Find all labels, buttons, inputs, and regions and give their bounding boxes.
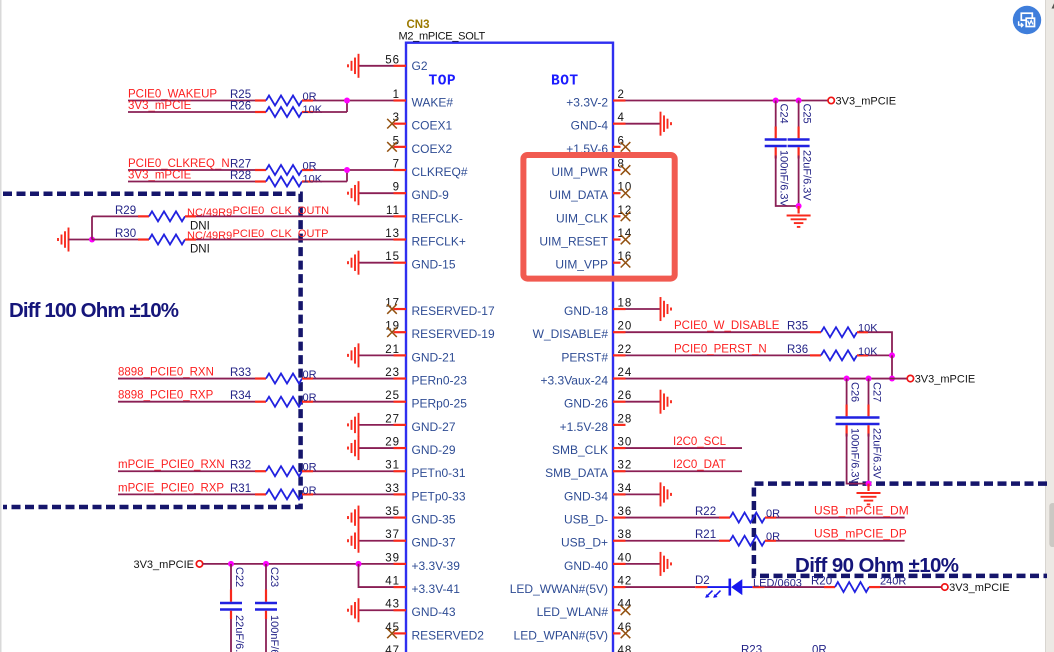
wire 3V3_mPCIE to R26 bbox=[128, 111, 255, 113]
pin 1 WAKE# bbox=[393, 89, 454, 110]
pin 21 GND-21 bbox=[385, 344, 456, 365]
power port 3V3_mPCIE (pin 2) bbox=[828, 97, 834, 103]
svg-text:R21: R21 bbox=[695, 529, 716, 541]
pin 18 GND-18 bbox=[564, 298, 632, 319]
svg-text:GND-15: GND-15 bbox=[412, 258, 456, 272]
wire R33 to pin bbox=[313, 378, 394, 380]
wire R27 to pin bbox=[313, 169, 394, 171]
pin 14 UIM_RESET bbox=[539, 228, 632, 249]
ground at pin 37 bbox=[348, 529, 359, 553]
svg-text:GND-26: GND-26 bbox=[564, 397, 608, 411]
pin 42 LED_WWAN#(5V) bbox=[510, 576, 633, 597]
pin 32 SMB_DATA bbox=[545, 460, 632, 481]
ground at pin 15 bbox=[348, 251, 359, 275]
pin 10 UIM_DATA bbox=[549, 182, 632, 203]
ground at pin 21 bbox=[348, 343, 359, 367]
resistor R21 0R bbox=[719, 536, 776, 546]
wire pin to R36 bbox=[626, 354, 811, 356]
pin 24 +3.3Vaux-24 bbox=[541, 367, 633, 388]
wire pin 40 to ground bbox=[626, 563, 661, 565]
svg-text:R25: R25 bbox=[230, 89, 251, 101]
junction bbox=[344, 167, 350, 173]
wire pin to R35 bbox=[626, 331, 811, 333]
ground at pin 27 bbox=[348, 413, 359, 437]
highlight box UIM pins bbox=[523, 155, 674, 279]
svg-text:GND-34: GND-34 bbox=[564, 489, 608, 503]
svg-text:Diff 90 Ohm ±10%: Diff 90 Ohm ±10% bbox=[795, 554, 959, 577]
svg-text:22uF/6.3: 22uF/6.3 bbox=[233, 615, 245, 652]
svg-text:+3.3V-2: +3.3V-2 bbox=[566, 96, 608, 110]
pin 5 COEX2 bbox=[393, 135, 453, 156]
svg-text:43: 43 bbox=[385, 599, 400, 611]
pin 45 RESERVED2 bbox=[385, 622, 484, 643]
connector CN3 body bbox=[406, 43, 613, 652]
ground at pin 9 bbox=[348, 181, 359, 205]
pin 56 G2 bbox=[385, 54, 428, 73]
svg-text:32: 32 bbox=[618, 460, 633, 472]
svg-text:3V3_mPCIE: 3V3_mPCIE bbox=[836, 95, 897, 107]
wire R30 to pin 13 bbox=[196, 239, 394, 241]
resistor R26 10K bbox=[255, 107, 313, 117]
no-connect X pin 12 bbox=[621, 212, 631, 222]
wire 8898_PCIE0_RXN to R33 bbox=[118, 378, 255, 380]
svg-text:22uF/6.3V: 22uF/6.3V bbox=[871, 428, 883, 479]
svg-text:UIM_RESET: UIM_RESET bbox=[539, 235, 608, 249]
resistor R35 10K bbox=[810, 327, 868, 337]
wire ground to R30 bbox=[92, 239, 138, 241]
page edge strip right bbox=[1046, 0, 1054, 652]
ground below C26/C27 bbox=[857, 493, 881, 504]
pin 31 PETn0-31 bbox=[385, 460, 466, 481]
pin 3 COEX1 bbox=[393, 112, 453, 133]
no-connect X pin 44 bbox=[621, 605, 631, 615]
resistor R32 0R bbox=[255, 466, 313, 476]
svg-text:PETp0-33: PETp0-33 bbox=[412, 489, 466, 503]
svg-text:GND-18: GND-18 bbox=[564, 304, 608, 318]
junction bbox=[228, 561, 234, 567]
svg-text:GND-40: GND-40 bbox=[564, 559, 608, 573]
wire pin 38 to R21 bbox=[626, 540, 720, 542]
svg-text:13: 13 bbox=[385, 228, 400, 240]
svg-text:240R: 240R bbox=[880, 576, 906, 588]
pin 11 REFCLK- bbox=[386, 205, 463, 226]
svg-text:40: 40 bbox=[618, 552, 633, 564]
svg-text:8898_PCIE0_RXP: 8898_PCIE0_RXP bbox=[118, 390, 214, 402]
pin 8 UIM_PWR bbox=[551, 159, 625, 180]
resistor R28 10K bbox=[255, 177, 313, 187]
wire pin 36 to R22 bbox=[626, 517, 720, 519]
svg-text:39: 39 bbox=[385, 552, 400, 564]
svg-text:11: 11 bbox=[386, 205, 400, 217]
pin 23 PERn0-23 bbox=[385, 367, 467, 388]
svg-text:PERp0-25: PERp0-25 bbox=[412, 397, 468, 411]
no-connect X pin 16 bbox=[621, 258, 631, 268]
svg-text:G2: G2 bbox=[412, 59, 428, 73]
wire C23 bottom bbox=[265, 619, 267, 652]
svg-text:+3.3V-41: +3.3V-41 bbox=[412, 582, 461, 596]
svg-text:BOT: BOT bbox=[551, 74, 579, 90]
svg-text:3V3_mPCIE: 3V3_mPCIE bbox=[133, 559, 194, 571]
svg-text:UIM_PWR: UIM_PWR bbox=[551, 165, 608, 179]
svg-text:PERST#: PERST# bbox=[561, 350, 608, 364]
wire PCIE0_WAKEUP to R25 bbox=[128, 100, 255, 102]
ground at pin 34 bbox=[661, 482, 672, 506]
svg-text:PCIE0_CLKREQ_N: PCIE0_CLKREQ_N bbox=[128, 158, 230, 170]
svg-text:3V3_mPCIE: 3V3_mPCIE bbox=[128, 100, 192, 112]
wire PCIE0_CLKREQ_N to R27 bbox=[128, 169, 255, 171]
floating action icon bbox=[1013, 6, 1041, 34]
svg-text:2: 2 bbox=[618, 89, 625, 101]
wire R36 to node bbox=[868, 354, 892, 356]
pin 34 GND-34 bbox=[564, 483, 632, 504]
pin 36 USB_D- bbox=[564, 506, 632, 527]
resistor R27 0R bbox=[255, 165, 313, 175]
no-connect X pin 46 bbox=[621, 629, 631, 639]
resistor R36 10K bbox=[810, 350, 868, 360]
svg-text:56: 56 bbox=[385, 54, 400, 66]
svg-text:UIM_DATA: UIM_DATA bbox=[549, 188, 608, 202]
ground at pin 43 bbox=[348, 598, 359, 622]
svg-text:R20: R20 bbox=[811, 576, 832, 588]
wire C23 top bbox=[265, 564, 267, 590]
capacitor C25 bbox=[788, 127, 810, 159]
svg-text:8898_PCIE0_RXN: 8898_PCIE0_RXN bbox=[118, 367, 214, 379]
capacitor C26 bbox=[836, 405, 858, 437]
wire 8898_PCIE0_RXP to R34 bbox=[118, 401, 255, 403]
svg-text:C24: C24 bbox=[778, 104, 790, 124]
no-connect X pin 45 bbox=[387, 629, 397, 639]
power port 3V3_mPCIE (pin 24) bbox=[907, 375, 913, 381]
pin 16 UIM_VPP bbox=[555, 251, 632, 272]
svg-text:GND-43: GND-43 bbox=[412, 605, 456, 619]
pin 30 SMB_CLK bbox=[552, 437, 632, 458]
wire C25 top bbox=[798, 101, 800, 131]
svg-text:26: 26 bbox=[618, 390, 633, 402]
wire node up to R29 bbox=[91, 216, 93, 239]
svg-text:REFCLK+: REFCLK+ bbox=[412, 235, 466, 249]
svg-text:15: 15 bbox=[385, 251, 400, 263]
wire pin 32 I2C0_DAT bbox=[626, 470, 743, 472]
LED D2 bbox=[695, 579, 764, 598]
pin 20 W_DISABLE# bbox=[533, 321, 633, 342]
no-connect X pin 8 bbox=[621, 165, 631, 175]
svg-text:RESERVED-17: RESERVED-17 bbox=[412, 304, 495, 318]
svg-text:C26: C26 bbox=[849, 382, 861, 402]
wire R31 to pin bbox=[313, 493, 394, 495]
power port 3V3_mPCIE (LED) bbox=[942, 584, 948, 590]
junction bbox=[889, 376, 895, 382]
wire C27 top bbox=[868, 379, 870, 408]
svg-text:M2_mPICE_SOLT: M2_mPICE_SOLT bbox=[399, 31, 486, 43]
wire 3V3 bus to pin 39 bbox=[203, 563, 394, 565]
pin 43 GND-43 bbox=[385, 599, 456, 620]
wire pin 15 to ground bbox=[359, 262, 394, 264]
ground at pin 4 bbox=[661, 112, 672, 136]
svg-text:R22: R22 bbox=[695, 506, 716, 518]
pin 17 RESERVED-17 bbox=[385, 298, 495, 319]
svg-text:48: 48 bbox=[618, 645, 633, 652]
svg-text:R26: R26 bbox=[230, 101, 251, 113]
svg-text:4: 4 bbox=[618, 112, 625, 124]
svg-text:COEX1: COEX1 bbox=[412, 119, 453, 133]
pin 35 GND-35 bbox=[385, 506, 456, 527]
svg-text:10K: 10K bbox=[303, 104, 323, 116]
svg-text:18: 18 bbox=[618, 298, 633, 310]
ground at pin 29 bbox=[348, 436, 359, 460]
svg-text:PERn0-23: PERn0-23 bbox=[412, 374, 468, 388]
page left edge line bbox=[0, 0, 2, 652]
svg-text:PETn0-31: PETn0-31 bbox=[412, 466, 466, 480]
pin 25 PERp0-25 bbox=[385, 390, 467, 411]
pin 40 GND-40 bbox=[564, 552, 632, 573]
wire pin 24 to 3V3_mPCIE bbox=[626, 378, 908, 380]
svg-text:R36: R36 bbox=[787, 344, 808, 356]
svg-text:GND-27: GND-27 bbox=[412, 420, 456, 434]
svg-text:22uF/6.3V: 22uF/6.3V bbox=[801, 150, 813, 201]
pin 28 +1.5V-28 bbox=[560, 413, 633, 434]
svg-text:PCIE0_CLK_OUTP: PCIE0_CLK_OUTP bbox=[233, 228, 329, 240]
wire R28 up to node bbox=[313, 181, 347, 183]
svg-text:TOP: TOP bbox=[429, 74, 457, 90]
pin 41 +3.3V-41 bbox=[385, 576, 460, 597]
svg-text:USB_mPCIE_DM: USB_mPCIE_DM bbox=[814, 504, 909, 518]
pin 27 GND-27 bbox=[385, 413, 456, 434]
pin 7 CLKREQ# bbox=[393, 159, 468, 180]
svg-text:R32: R32 bbox=[230, 460, 251, 472]
svg-text:I2C0_SCL: I2C0_SCL bbox=[673, 436, 727, 448]
svg-text:mPCIE_PCIE0_RXN: mPCIE_PCIE0_RXN bbox=[118, 459, 225, 471]
wire C27 bottom to node bbox=[868, 434, 870, 484]
svg-text:20: 20 bbox=[618, 321, 633, 333]
ground at pin 18 bbox=[661, 297, 672, 321]
svg-text:GND-9: GND-9 bbox=[412, 188, 450, 202]
wire pin 42 to D2 bbox=[626, 586, 696, 588]
svg-text:LED_WPAN#(5V): LED_WPAN#(5V) bbox=[514, 628, 608, 642]
svg-text:+1.5V-28: +1.5V-28 bbox=[560, 420, 609, 434]
wire R21 to net bbox=[776, 540, 905, 542]
wire R29 to pin 11 bbox=[196, 215, 394, 217]
ground at pin 35 bbox=[348, 506, 359, 530]
svg-text:W_DISABLE#: W_DISABLE# bbox=[533, 327, 609, 341]
svg-text:C27: C27 bbox=[871, 382, 883, 402]
svg-text:+3.3Vaux-24: +3.3Vaux-24 bbox=[541, 374, 609, 388]
svg-text:42: 42 bbox=[618, 576, 633, 588]
svg-text:R34: R34 bbox=[230, 390, 252, 402]
resistor R25 0R bbox=[255, 96, 313, 106]
junction bbox=[773, 98, 779, 104]
wire R25 to pin bbox=[313, 100, 394, 102]
ground at pin 40 bbox=[661, 552, 672, 576]
pin 39 +3.3V-39 bbox=[385, 552, 460, 573]
svg-text:29: 29 bbox=[385, 437, 400, 449]
note box Diff 90 Ohm (dashed) bbox=[754, 484, 1047, 576]
svg-text:36: 36 bbox=[618, 506, 633, 518]
pin 4 GND-4 bbox=[571, 112, 626, 133]
svg-text:UIM_CLK: UIM_CLK bbox=[556, 211, 608, 225]
wire C26 bottom to node bbox=[847, 434, 869, 484]
capacitor C27 bbox=[858, 405, 880, 437]
pin 47 bbox=[385, 645, 400, 652]
wire pin 56 to ground bbox=[359, 65, 394, 67]
pin 15 GND-15 bbox=[385, 251, 456, 272]
resistor R31 0R bbox=[255, 489, 313, 499]
svg-text:C23: C23 bbox=[268, 567, 280, 587]
wire branch to pin 41 bbox=[359, 564, 394, 587]
no-connect X pin 19 bbox=[387, 327, 397, 337]
junction bbox=[356, 561, 362, 567]
svg-text:LED_WWAN#(5V): LED_WWAN#(5V) bbox=[510, 582, 608, 596]
wire D2 to R20 bbox=[764, 586, 824, 588]
pin 38 USB_D+ bbox=[561, 529, 632, 550]
no-connect X pin 5 bbox=[387, 142, 397, 152]
wire pin 21 to ground bbox=[359, 354, 394, 356]
svg-text:21: 21 bbox=[385, 344, 400, 356]
no-connect X pin 6 bbox=[621, 142, 631, 152]
svg-text:31: 31 bbox=[385, 460, 400, 472]
wire C26 top bbox=[846, 379, 848, 408]
svg-text:+3.3V-39: +3.3V-39 bbox=[412, 559, 461, 573]
svg-text:RESERVED-19: RESERVED-19 bbox=[412, 327, 495, 341]
resistor R20 240R bbox=[824, 582, 880, 592]
pin 44 LED_WLAN# bbox=[537, 599, 633, 620]
wire pin 29 to ground bbox=[359, 447, 394, 449]
note box Diff 100 Ohm (dashed) bbox=[3, 194, 301, 507]
svg-text:38: 38 bbox=[618, 529, 633, 541]
svg-text:R23: R23 bbox=[741, 645, 762, 652]
svg-text:R35: R35 bbox=[787, 321, 808, 333]
no-connect X pin 14 bbox=[621, 235, 631, 245]
pin 26 GND-26 bbox=[564, 390, 632, 411]
svg-text:27: 27 bbox=[385, 413, 400, 425]
svg-text:23: 23 bbox=[385, 367, 400, 379]
wire pin 9 to ground bbox=[359, 192, 394, 194]
pin 37 GND-37 bbox=[385, 529, 456, 550]
corner mark bbox=[1052, 3, 1054, 8]
wire pin 27 to ground bbox=[359, 424, 394, 426]
svg-text:GND-37: GND-37 bbox=[412, 536, 456, 550]
svg-text:3V3_mPCIE: 3V3_mPCIE bbox=[915, 373, 976, 385]
svg-text:R31: R31 bbox=[230, 483, 251, 495]
pin 12 UIM_CLK bbox=[556, 205, 632, 226]
svg-text:USB_D+: USB_D+ bbox=[561, 536, 608, 550]
svg-text:DNI: DNI bbox=[190, 244, 210, 256]
svg-text:GND-35: GND-35 bbox=[412, 513, 456, 527]
pin 33 PETp0-33 bbox=[385, 483, 466, 504]
resistor R22 0R bbox=[719, 513, 776, 523]
junction bbox=[889, 352, 895, 358]
svg-text:R29: R29 bbox=[115, 205, 136, 217]
svg-text:RESERVED2: RESERVED2 bbox=[412, 628, 485, 642]
svg-text:COEX2: COEX2 bbox=[412, 142, 453, 156]
svg-text:GND-4: GND-4 bbox=[571, 119, 609, 133]
svg-text:UIM_VPP: UIM_VPP bbox=[555, 258, 608, 272]
resistor R29 NC/49R9 DNI bbox=[138, 211, 196, 221]
svg-text:100nF/6.3V: 100nF/6.3V bbox=[849, 428, 861, 486]
wire node down to pin 24 rail bbox=[891, 355, 893, 378]
wire node to ground bbox=[797, 206, 799, 214]
junction bbox=[866, 376, 872, 382]
wire C24 top bbox=[775, 101, 777, 131]
svg-text:R33: R33 bbox=[230, 367, 251, 379]
junction bbox=[796, 203, 802, 209]
resistor R30 NC/49R9 DNI bbox=[138, 235, 196, 245]
svg-text:33: 33 bbox=[385, 483, 400, 495]
wire node to ground bbox=[867, 484, 869, 491]
svg-text:30: 30 bbox=[618, 437, 633, 449]
no-connect X pin 17 bbox=[387, 304, 397, 314]
wire pin 4 to ground bbox=[626, 123, 661, 125]
svg-text:PCIE0_W_DISABLE: PCIE0_W_DISABLE bbox=[674, 320, 780, 332]
capacitor C24 bbox=[765, 127, 787, 159]
resistor R33 0R bbox=[255, 374, 313, 384]
svg-text:CLKREQ#: CLKREQ# bbox=[412, 165, 468, 179]
junction bbox=[344, 98, 350, 104]
wire pin 35 to ground bbox=[359, 517, 394, 519]
svg-text:37: 37 bbox=[385, 529, 400, 541]
pin 2 +3.3V-2 bbox=[566, 89, 625, 110]
wire pin 43 to ground bbox=[359, 609, 394, 611]
svg-text:3V3_mPCIE: 3V3_mPCIE bbox=[128, 170, 192, 182]
pin 22 PERST# bbox=[561, 344, 632, 365]
wire C25 bottom to node bbox=[798, 156, 800, 207]
wire C22 top bbox=[230, 564, 232, 590]
svg-text:100nF/6: 100nF/6 bbox=[268, 615, 280, 652]
pin 19 RESERVED-19 bbox=[385, 321, 495, 342]
junction bbox=[89, 237, 95, 243]
svg-text:R28: R28 bbox=[230, 170, 251, 182]
ground at pin 56 bbox=[348, 54, 359, 78]
svg-text:25: 25 bbox=[385, 390, 400, 402]
svg-text:I2C0_DAT: I2C0_DAT bbox=[673, 459, 726, 471]
svg-text:7: 7 bbox=[393, 159, 400, 171]
wire R34 to pin bbox=[313, 401, 394, 403]
ground at R30 bbox=[58, 228, 69, 252]
svg-text:R27: R27 bbox=[230, 159, 251, 171]
svg-text:GND-21: GND-21 bbox=[412, 350, 456, 364]
wire ground to node bbox=[69, 239, 93, 241]
svg-text:SMB_DATA: SMB_DATA bbox=[545, 466, 608, 480]
pin 48 bbox=[618, 645, 633, 652]
svg-text:C22: C22 bbox=[233, 567, 245, 587]
svg-text:CN3: CN3 bbox=[407, 19, 430, 31]
wire pin 34 to ground bbox=[626, 493, 661, 495]
svg-text:GND-29: GND-29 bbox=[412, 443, 456, 457]
capacitor C23 bbox=[255, 590, 277, 620]
svg-text:SMB_CLK: SMB_CLK bbox=[552, 443, 608, 457]
ground at pin 26 bbox=[661, 390, 672, 414]
svg-text:3V3_mPCIE: 3V3_mPCIE bbox=[949, 582, 1010, 594]
pin 13 REFCLK+ bbox=[385, 228, 466, 249]
svg-text:mPCIE_PCIE0_RXP: mPCIE_PCIE0_RXP bbox=[118, 482, 224, 494]
svg-text:PCIE0_PERST_N: PCIE0_PERST_N bbox=[674, 343, 767, 355]
no-connect X pin 10 bbox=[621, 188, 631, 198]
svg-text:USB_D-: USB_D- bbox=[564, 513, 608, 527]
svg-text:35: 35 bbox=[385, 506, 400, 518]
no-connect X pin 3 bbox=[387, 119, 397, 129]
svg-text:22: 22 bbox=[618, 344, 633, 356]
svg-text:41: 41 bbox=[385, 576, 400, 588]
pin 46 LED_WPAN#(5V) bbox=[514, 622, 633, 643]
pin 9 GND-9 bbox=[393, 182, 450, 203]
svg-text:0R: 0R bbox=[812, 645, 827, 652]
wire 3V3_mPCIE to R28 bbox=[128, 181, 255, 183]
svg-text:WAKE#: WAKE# bbox=[412, 96, 454, 110]
svg-text:REFCLK-: REFCLK- bbox=[412, 211, 463, 225]
resistor R34 0R bbox=[255, 397, 313, 407]
wire R32 to pin bbox=[313, 470, 394, 472]
wire R22 to net bbox=[776, 517, 905, 519]
svg-text:Diff 100 Ohm ±10%: Diff 100 Ohm ±10% bbox=[9, 299, 179, 322]
